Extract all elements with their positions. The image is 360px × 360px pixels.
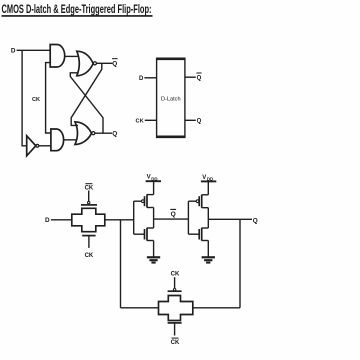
node CKbar (TG2 bottom gate) xyxy=(171,338,180,346)
title text xyxy=(2,2,153,16)
wire D to block xyxy=(144,77,156,79)
nmos M4 (inverter U3) xyxy=(188,219,208,256)
wire D input xyxy=(17,49,51,51)
wire G4 output xyxy=(95,132,112,134)
node Qbar (block output) xyxy=(196,73,201,81)
power VDD (inverter U3) xyxy=(201,175,216,195)
node CK (TG1 bottom gate) xyxy=(85,253,94,259)
power VDD (inverter U2) xyxy=(146,175,161,195)
pmos M3 (inverter U3) xyxy=(188,195,208,220)
nor-gate G4 (bottom, cross-coupled) xyxy=(75,122,95,145)
svg-text:CK: CK xyxy=(171,340,180,346)
wire TG1 to inverter U2 input xyxy=(105,219,134,221)
ground (inverter U3) xyxy=(202,257,215,262)
svg-text:V: V xyxy=(147,175,151,181)
wire TG2 to feedback bottom left xyxy=(121,307,159,309)
svg-text:CK: CK xyxy=(85,186,94,192)
svg-text:CMOS D-latch & Edge-Triggered: CMOS D-latch & Edge-Triggered Flip-Flop: xyxy=(2,2,152,16)
svg-text:Q: Q xyxy=(197,119,202,125)
nor-gate G3 (top, cross-coupled) xyxy=(77,51,97,76)
wire U3 output to node Q xyxy=(208,218,252,220)
svg-text:V: V xyxy=(202,175,206,181)
node Q (block output) xyxy=(197,119,202,125)
wire D to TG1 xyxy=(51,219,72,221)
svg-text:CK: CK xyxy=(85,253,94,259)
D-latch block U1 xyxy=(156,59,186,138)
svg-text:CK: CK xyxy=(32,97,40,103)
wire CK vertical xyxy=(46,63,51,133)
transmission gate TG2 body xyxy=(159,296,193,321)
wire G1 output to G3 xyxy=(65,55,78,57)
svg-text:Q: Q xyxy=(112,60,117,67)
and-gate G2 (bottom) xyxy=(51,129,64,151)
wire feedback right vertical xyxy=(239,219,241,307)
nmos M2 (inverter U2) xyxy=(134,219,154,257)
TG1 top gate plate and bubble xyxy=(81,191,97,205)
wire D down to inverter xyxy=(22,50,27,146)
pmos M1 (inverter U2) xyxy=(134,194,154,219)
svg-text:Q: Q xyxy=(171,211,176,218)
svg-text:CK: CK xyxy=(171,272,180,278)
wire feedback left vertical xyxy=(120,220,122,308)
svg-text:D: D xyxy=(11,48,16,55)
node CK (block input) xyxy=(136,119,144,125)
svg-text:Q: Q xyxy=(253,217,258,224)
wire G2 output to G4 xyxy=(64,139,77,141)
svg-text:Q: Q xyxy=(197,75,202,81)
node Q (CMOS output) xyxy=(253,217,258,224)
node CKbar (TG1 top gate) xyxy=(85,184,94,192)
TG2 bottom gate plate xyxy=(168,323,182,336)
node Qbar (gate-level output) xyxy=(112,59,118,68)
wire cross-coupling from G4 output to G3 input xyxy=(70,73,103,133)
node D (block input) xyxy=(139,76,144,82)
svg-text:D-Latch: D-Latch xyxy=(161,96,181,102)
wire U2 gate rail xyxy=(133,201,135,234)
wire U3 gate rail xyxy=(187,201,189,234)
wire G5 output to G2 xyxy=(39,145,51,147)
svg-text:CK: CK xyxy=(136,119,144,125)
wire CK to block xyxy=(145,119,157,121)
node CK (TG2 top gate) xyxy=(171,272,180,278)
wire U2 output to U3 input (node Qbar) xyxy=(154,218,189,220)
node D (CMOS input) xyxy=(45,217,50,224)
svg-text:D: D xyxy=(45,217,50,224)
node Qbar (CMOS internal) xyxy=(170,209,176,217)
and-gate G1 (top) xyxy=(50,45,64,68)
wire block to Q xyxy=(185,119,196,121)
TG2 top gate plate and bubble xyxy=(168,277,182,291)
wire block to Qbar xyxy=(185,76,196,78)
inverter G5 xyxy=(27,136,39,156)
transmission gate TG1 body xyxy=(72,208,105,231)
svg-text:Q: Q xyxy=(112,131,117,138)
ground (inverter U2) xyxy=(147,257,160,262)
node Q (gate-level output) xyxy=(112,131,117,138)
wire feedback bottom right to TG2 xyxy=(193,307,240,309)
node CK (gate-level) xyxy=(32,97,40,103)
node D (gate-level latch input) xyxy=(11,48,16,55)
wire cross-coupling from G3 output to G4 input xyxy=(71,63,102,125)
TG1 bottom gate plate xyxy=(82,236,95,248)
wire G3 output xyxy=(97,62,113,64)
svg-text:D: D xyxy=(139,76,144,82)
